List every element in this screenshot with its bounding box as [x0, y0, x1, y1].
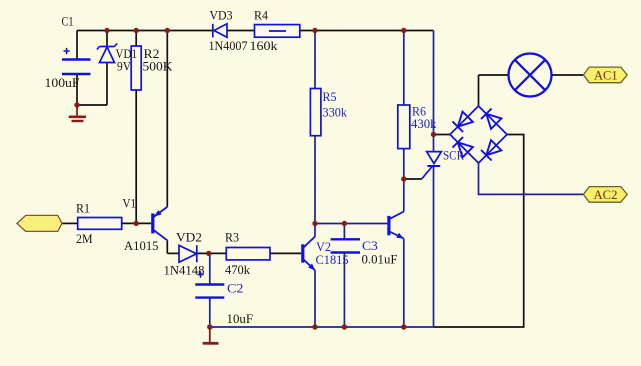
wire VD2 to R3: [197, 252, 227, 254]
wire bridge bottom to AC2: [479, 163, 584, 194]
svg-text:0.01uF: 0.01uF: [362, 252, 398, 267]
C1 plus sign: [64, 48, 70, 54]
svg-text:SCR: SCR: [443, 148, 464, 163]
capacitor C2: [195, 285, 224, 298]
wire V1 to VD2: [167, 252, 179, 254]
node flag AC1: [583, 67, 627, 83]
wire V2 collector/emitter stubs: [314, 224, 316, 328]
junction Q3 emitter bottom rail: [401, 324, 406, 329]
wire VD1 stubs: [106, 31, 108, 106]
bridge diode D-BR: [481, 140, 501, 160]
svg-text:10uF: 10uF: [227, 311, 254, 326]
svg-text:470k: 470k: [225, 262, 250, 277]
svg-text:R3: R3: [225, 230, 239, 245]
svg-text:A1015: A1015: [124, 238, 159, 253]
transistor V2 (NPN C1815): [301, 237, 315, 271]
svg-text:430k: 430k: [411, 116, 437, 131]
lamp: [509, 54, 552, 97]
wire bridge top to lamp: [479, 75, 509, 106]
wire R6 stubs: [403, 31, 405, 180]
svg-text:C1: C1: [62, 14, 74, 29]
resistor R3: [226, 248, 270, 260]
bridge diode D-TL: [453, 112, 473, 132]
svg-text:C1815: C1815: [316, 252, 349, 267]
wire SCR column to bridge left: [434, 134, 451, 136]
junction C3 top: [342, 221, 347, 226]
wire bottom rail: [210, 326, 434, 328]
junction R5 bottom V2 collector: [312, 221, 317, 226]
svg-text:2M: 2M: [76, 231, 93, 246]
wire R3 to V2 base: [270, 252, 301, 254]
ground under C2: [203, 327, 219, 343]
junction SCR anode bridge left: [431, 132, 436, 137]
svg-text:AC2: AC2: [594, 187, 618, 202]
junction C1 bottom node: [74, 102, 79, 107]
wire V1 collector stub: [166, 240, 168, 253]
svg-text:9V: 9V: [117, 59, 132, 74]
resistor R5: [310, 89, 321, 136]
wire lamp to AC1: [552, 74, 584, 76]
junction C2 top at VD2 cathode: [206, 251, 211, 256]
wire C3 stubs: [343, 224, 345, 328]
bridge diode D-BL: [453, 137, 473, 157]
svg-text:500K: 500K: [143, 59, 174, 74]
wire base row to Q3: [315, 223, 387, 225]
wire flag to R1: [62, 222, 78, 224]
junction R5 top rail: [312, 28, 317, 33]
wire top rail: [77, 30, 434, 32]
resistor R4: [255, 25, 300, 38]
junction VD1 top rail: [104, 28, 109, 33]
bridge rectifier diamond: [450, 106, 507, 163]
capacitor C3: [331, 239, 360, 252]
svg-text:1N4007: 1N4007: [209, 38, 248, 53]
bridge diode D-TR: [481, 109, 501, 129]
junction R2 bottom at V1 base: [134, 221, 139, 226]
wire gate node to SCR: [404, 178, 422, 180]
zener diode VD1: [97, 44, 117, 63]
junction C3 bottom rail: [342, 324, 347, 329]
svg-text:160k: 160k: [250, 38, 279, 53]
resistor R6: [398, 105, 410, 149]
node flag AC2: [583, 187, 627, 203]
wire V1 emitter column: [166, 31, 168, 207]
thyristor SCR: [422, 152, 442, 179]
svg-text:AC1: AC1: [594, 67, 618, 82]
svg-text:330k: 330k: [323, 105, 348, 120]
wire R1 to V1 base: [122, 222, 152, 224]
svg-text:VD3: VD3: [210, 8, 233, 23]
svg-text:R4: R4: [254, 8, 268, 23]
wire C1 stubs: [76, 31, 78, 106]
wire C2 column: [209, 253, 210, 327]
wire SCR anode column: [433, 31, 435, 152]
junction R6 bottom gate node: [401, 176, 406, 181]
resistor R1: [78, 218, 122, 230]
ground under C1: [69, 105, 86, 121]
resistor R2: [131, 46, 141, 90]
junction R6 top rail: [401, 28, 406, 33]
junction C2 bottom rail: [207, 324, 212, 329]
wire SCR cathode column: [433, 167, 435, 327]
junction R2 top rail: [134, 28, 139, 33]
wire Q3 collector/emitter stubs: [403, 179, 405, 327]
C2 plus sign: [197, 271, 203, 277]
svg-text:R1: R1: [76, 201, 90, 216]
capacitor C1: [62, 60, 91, 75]
wire R5 stubs: [314, 31, 316, 224]
wire R2 stubs: [135, 31, 137, 224]
svg-text:R5: R5: [323, 89, 337, 104]
svg-text:V1: V1: [123, 196, 137, 211]
svg-text:1N4148: 1N4148: [164, 263, 205, 278]
svg-text:C2: C2: [227, 281, 244, 296]
transistor Q3 (driver NPN): [387, 212, 404, 239]
diode VD3: [213, 24, 227, 38]
wire bridge right down to bottom rail: [434, 135, 524, 328]
transistor V1 (PNP A1015): [151, 207, 167, 240]
svg-text:VD2: VD2: [176, 230, 202, 245]
diode VD2: [179, 245, 197, 262]
junction V2 emitter bottom rail: [312, 324, 317, 329]
junction V1 emitter top rail: [165, 28, 170, 33]
svg-text:C3: C3: [362, 238, 378, 253]
node flag input (left): [17, 215, 62, 231]
svg-text:100uF: 100uF: [45, 75, 80, 90]
wire C1 to VD1: [77, 104, 107, 106]
